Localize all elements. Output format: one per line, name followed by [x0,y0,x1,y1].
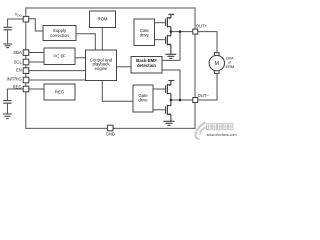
svg-text:www.elecfans.com: www.elecfans.com [207,133,237,137]
svg-text:SCL: SCL [14,59,23,64]
svg-text:drive: drive [140,32,150,37]
svg-text:detection: detection [137,63,156,68]
svg-text:correction: correction [50,33,69,38]
svg-text:ERM: ERM [225,64,234,69]
svg-text:SDA: SDA [13,50,22,55]
svg-text:M: M [215,61,219,67]
svg-text:engine: engine [95,66,109,71]
svg-text:GND: GND [106,132,115,137]
svg-text:EN: EN [16,67,22,72]
svg-text:REG: REG [55,89,65,94]
svg-text:OUT+: OUT+ [196,23,208,28]
svg-text:drive: drive [138,98,148,103]
svg-text:ROM: ROM [97,17,107,22]
svg-text:OUT–: OUT– [198,93,210,98]
svg-text:REG: REG [13,85,22,90]
svg-text:IN/TRIG: IN/TRIG [6,76,21,81]
svg-text:VDD: VDD [15,11,23,17]
